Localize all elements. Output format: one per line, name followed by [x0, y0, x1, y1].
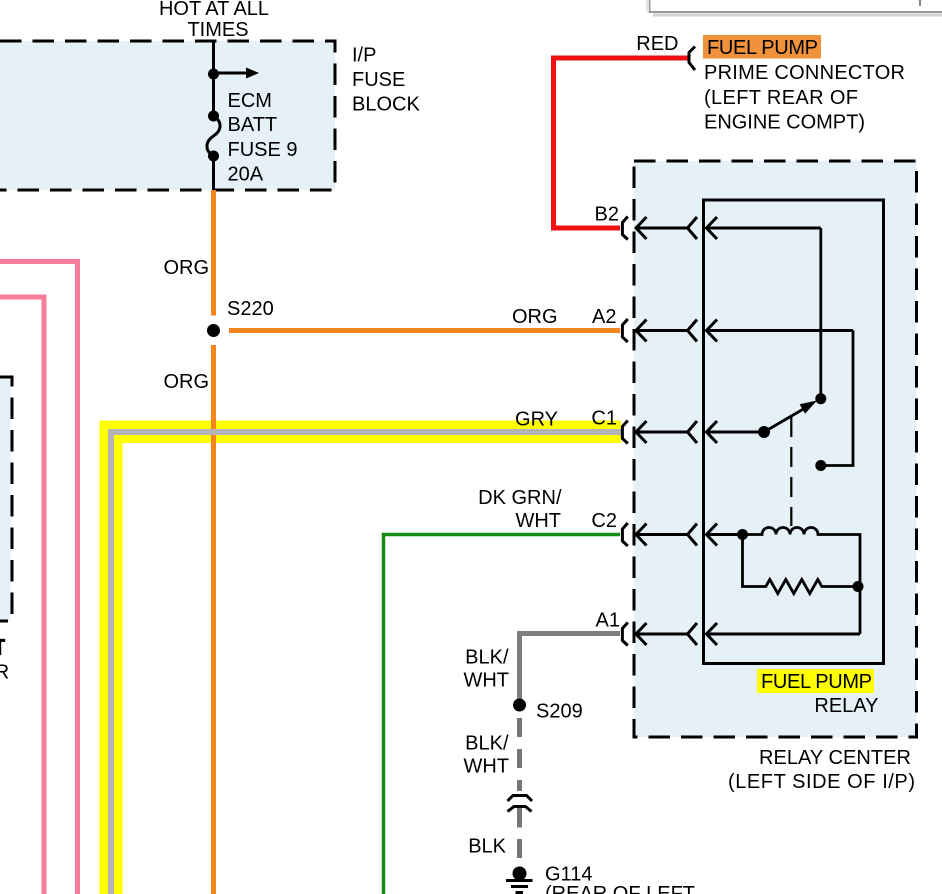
svg-text:HOT AT ALL: HOT AT ALL: [159, 0, 269, 20]
wire BLK/WHT dashed (S209 to inline connector): [517, 718, 522, 791]
svg-text:ECM: ECM: [228, 90, 272, 112]
pin A1 inner arrow: [707, 623, 861, 645]
svg-text:ORG: ORG: [163, 257, 209, 279]
label DK GRN/ WHT: [478, 487, 562, 532]
svg-text:RED: RED: [636, 33, 678, 55]
node dot top of fuse: [208, 69, 219, 80]
pin A2 outer arrow: [636, 320, 697, 342]
relay coil: [743, 528, 861, 635]
label PRIME CONNECTOR (LEFT REAR OF ENGINE COMPT): [704, 62, 905, 134]
node coil left: [737, 529, 748, 540]
svg-text:FUEL PUMP: FUEL PUMP: [761, 671, 872, 693]
inline connector symbol on BLK/WHT wire: [508, 796, 533, 812]
wire RED (fuel pump prime): [554, 58, 689, 228]
node switch lower contact: [815, 460, 826, 471]
node switch upper contact: [815, 393, 826, 404]
wire BLK (connector to G114): [517, 807, 522, 859]
pin C2 inner arrow: [707, 524, 743, 546]
svg-text:FUSE: FUSE: [352, 69, 405, 91]
svg-text:C2: C2: [591, 510, 617, 532]
svg-text:A1: A1: [596, 610, 620, 632]
label I/P FUSE BLOCK: [352, 45, 420, 116]
svg-text:C1: C1: [591, 408, 617, 430]
pin C1 inner arrow: [707, 421, 765, 443]
svg-text:S209: S209: [536, 701, 583, 723]
switch arm with arrowhead: [764, 401, 817, 433]
node resistor right: [853, 581, 864, 592]
pin B2 inner arrow: [707, 217, 821, 239]
svg-text:ENGINE COMPT): ENGINE COMPT): [704, 112, 865, 134]
wire GRY (C1, over yellow highlight): [111, 432, 622, 894]
svg-text:RELAY CENTER: RELAY CENTER: [759, 747, 911, 769]
pin A2 inner arrow: [707, 320, 854, 342]
pin C2 outer arrow: [636, 524, 697, 546]
svg-text:R: R: [0, 662, 9, 684]
wire BLK/WHT (A1 to S209): [520, 634, 621, 701]
svg-text:WHT: WHT: [463, 670, 509, 692]
svg-text:BLOCK: BLOCK: [352, 94, 420, 116]
ground G114: [506, 867, 533, 893]
pin B2 outer arrow: [636, 217, 697, 239]
svg-text:(LEFT REAR OF: (LEFT REAR OF: [704, 87, 858, 109]
svg-text:WHT: WHT: [515, 510, 561, 532]
label ECM BATT FUSE 9 20A: [228, 90, 298, 186]
node S220: [207, 324, 220, 337]
svg-text:TIMES: TIMES: [187, 19, 248, 41]
svg-text:FUSE 9: FUSE 9: [228, 139, 298, 161]
wire PNK inner: [0, 297, 44, 894]
wire GRY yellow highlight band: [100, 421, 622, 894]
svg-text:B2: B2: [595, 204, 619, 226]
svg-text:A2: A2: [592, 306, 616, 328]
svg-text:BLK/: BLK/: [465, 733, 509, 755]
svg-text:ORG: ORG: [163, 371, 209, 393]
relay internal: B2 contact drop wire: [819, 228, 822, 399]
svg-text:FUEL PUMP: FUEL PUMP: [707, 37, 818, 59]
pin C1 outer arrow: [636, 421, 697, 443]
label fragment T: [0, 639, 5, 642]
fuse ECM BATT FUSE 9 20A: [207, 111, 220, 162]
label FUEL PUMP (orange highlight): [703, 35, 821, 59]
label HOT AT ALL TIMES: [159, 0, 269, 41]
pin B2 connector bracket: [622, 217, 627, 240]
connector bracket fuel pump prime: [689, 47, 695, 71]
pin C2 connector bracket: [622, 523, 627, 546]
svg-text:(REAR OF LEFT: (REAR OF LEFT: [545, 883, 695, 894]
top-right window corner: [646, 0, 942, 17]
wire DK GRN/WHT (C2): [384, 535, 621, 894]
relay internal: A2 wire to lower contact: [826, 331, 853, 466]
wire ORG vertical (fuse block to bottom): [211, 190, 216, 894]
relay outline box: [704, 200, 884, 664]
label BLK/ WHT at S209: [463, 733, 509, 778]
svg-text:WHT: WHT: [463, 756, 509, 778]
label BLK/ WHT at A1: [463, 647, 509, 692]
svg-text:BATT: BATT: [228, 114, 278, 136]
relay resistor: [743, 535, 858, 594]
wire ORG horizontal (S220 to relay pin A2): [229, 328, 620, 333]
relay center box (dashed, light blue): [634, 161, 917, 737]
pin A2 connector bracket: [622, 319, 627, 342]
pin C1 connector bracket: [622, 421, 627, 444]
left partial connector box (dashed, light blue): [0, 377, 12, 621]
pin A1 outer arrow: [636, 623, 697, 645]
svg-text:ORG: ORG: [512, 306, 558, 328]
node S209: [513, 699, 526, 712]
label RELAY CENTER (LEFT SIDE OF I/P): [728, 747, 915, 793]
svg-text:PRIME CONNECTOR: PRIME CONNECTOR: [704, 62, 905, 84]
label FUEL PUMP (yellow highlight): [757, 669, 874, 693]
svg-text:(LEFT SIDE OF I/P): (LEFT SIDE OF I/P): [728, 771, 915, 793]
pin A1 connector bracket: [622, 623, 627, 646]
node switch common: [758, 426, 770, 438]
svg-text:I/P: I/P: [352, 45, 376, 67]
svg-text:RELAY: RELAY: [814, 695, 878, 717]
wire black inside fuse block: [212, 40, 215, 190]
svg-text:GRY: GRY: [515, 409, 558, 431]
I/P fuse block box (dashed, light blue): [0, 41, 335, 190]
wire PNK outer: [0, 262, 78, 894]
relay actuator dashed line: [790, 417, 792, 526]
svg-text:S220: S220: [227, 298, 274, 320]
arrow to other circuits: [214, 68, 260, 79]
svg-text:20A: 20A: [228, 164, 264, 186]
svg-text:DK GRN/: DK GRN/: [478, 487, 562, 509]
svg-text:BLK: BLK: [468, 836, 506, 858]
svg-text:BLK/: BLK/: [465, 647, 509, 669]
